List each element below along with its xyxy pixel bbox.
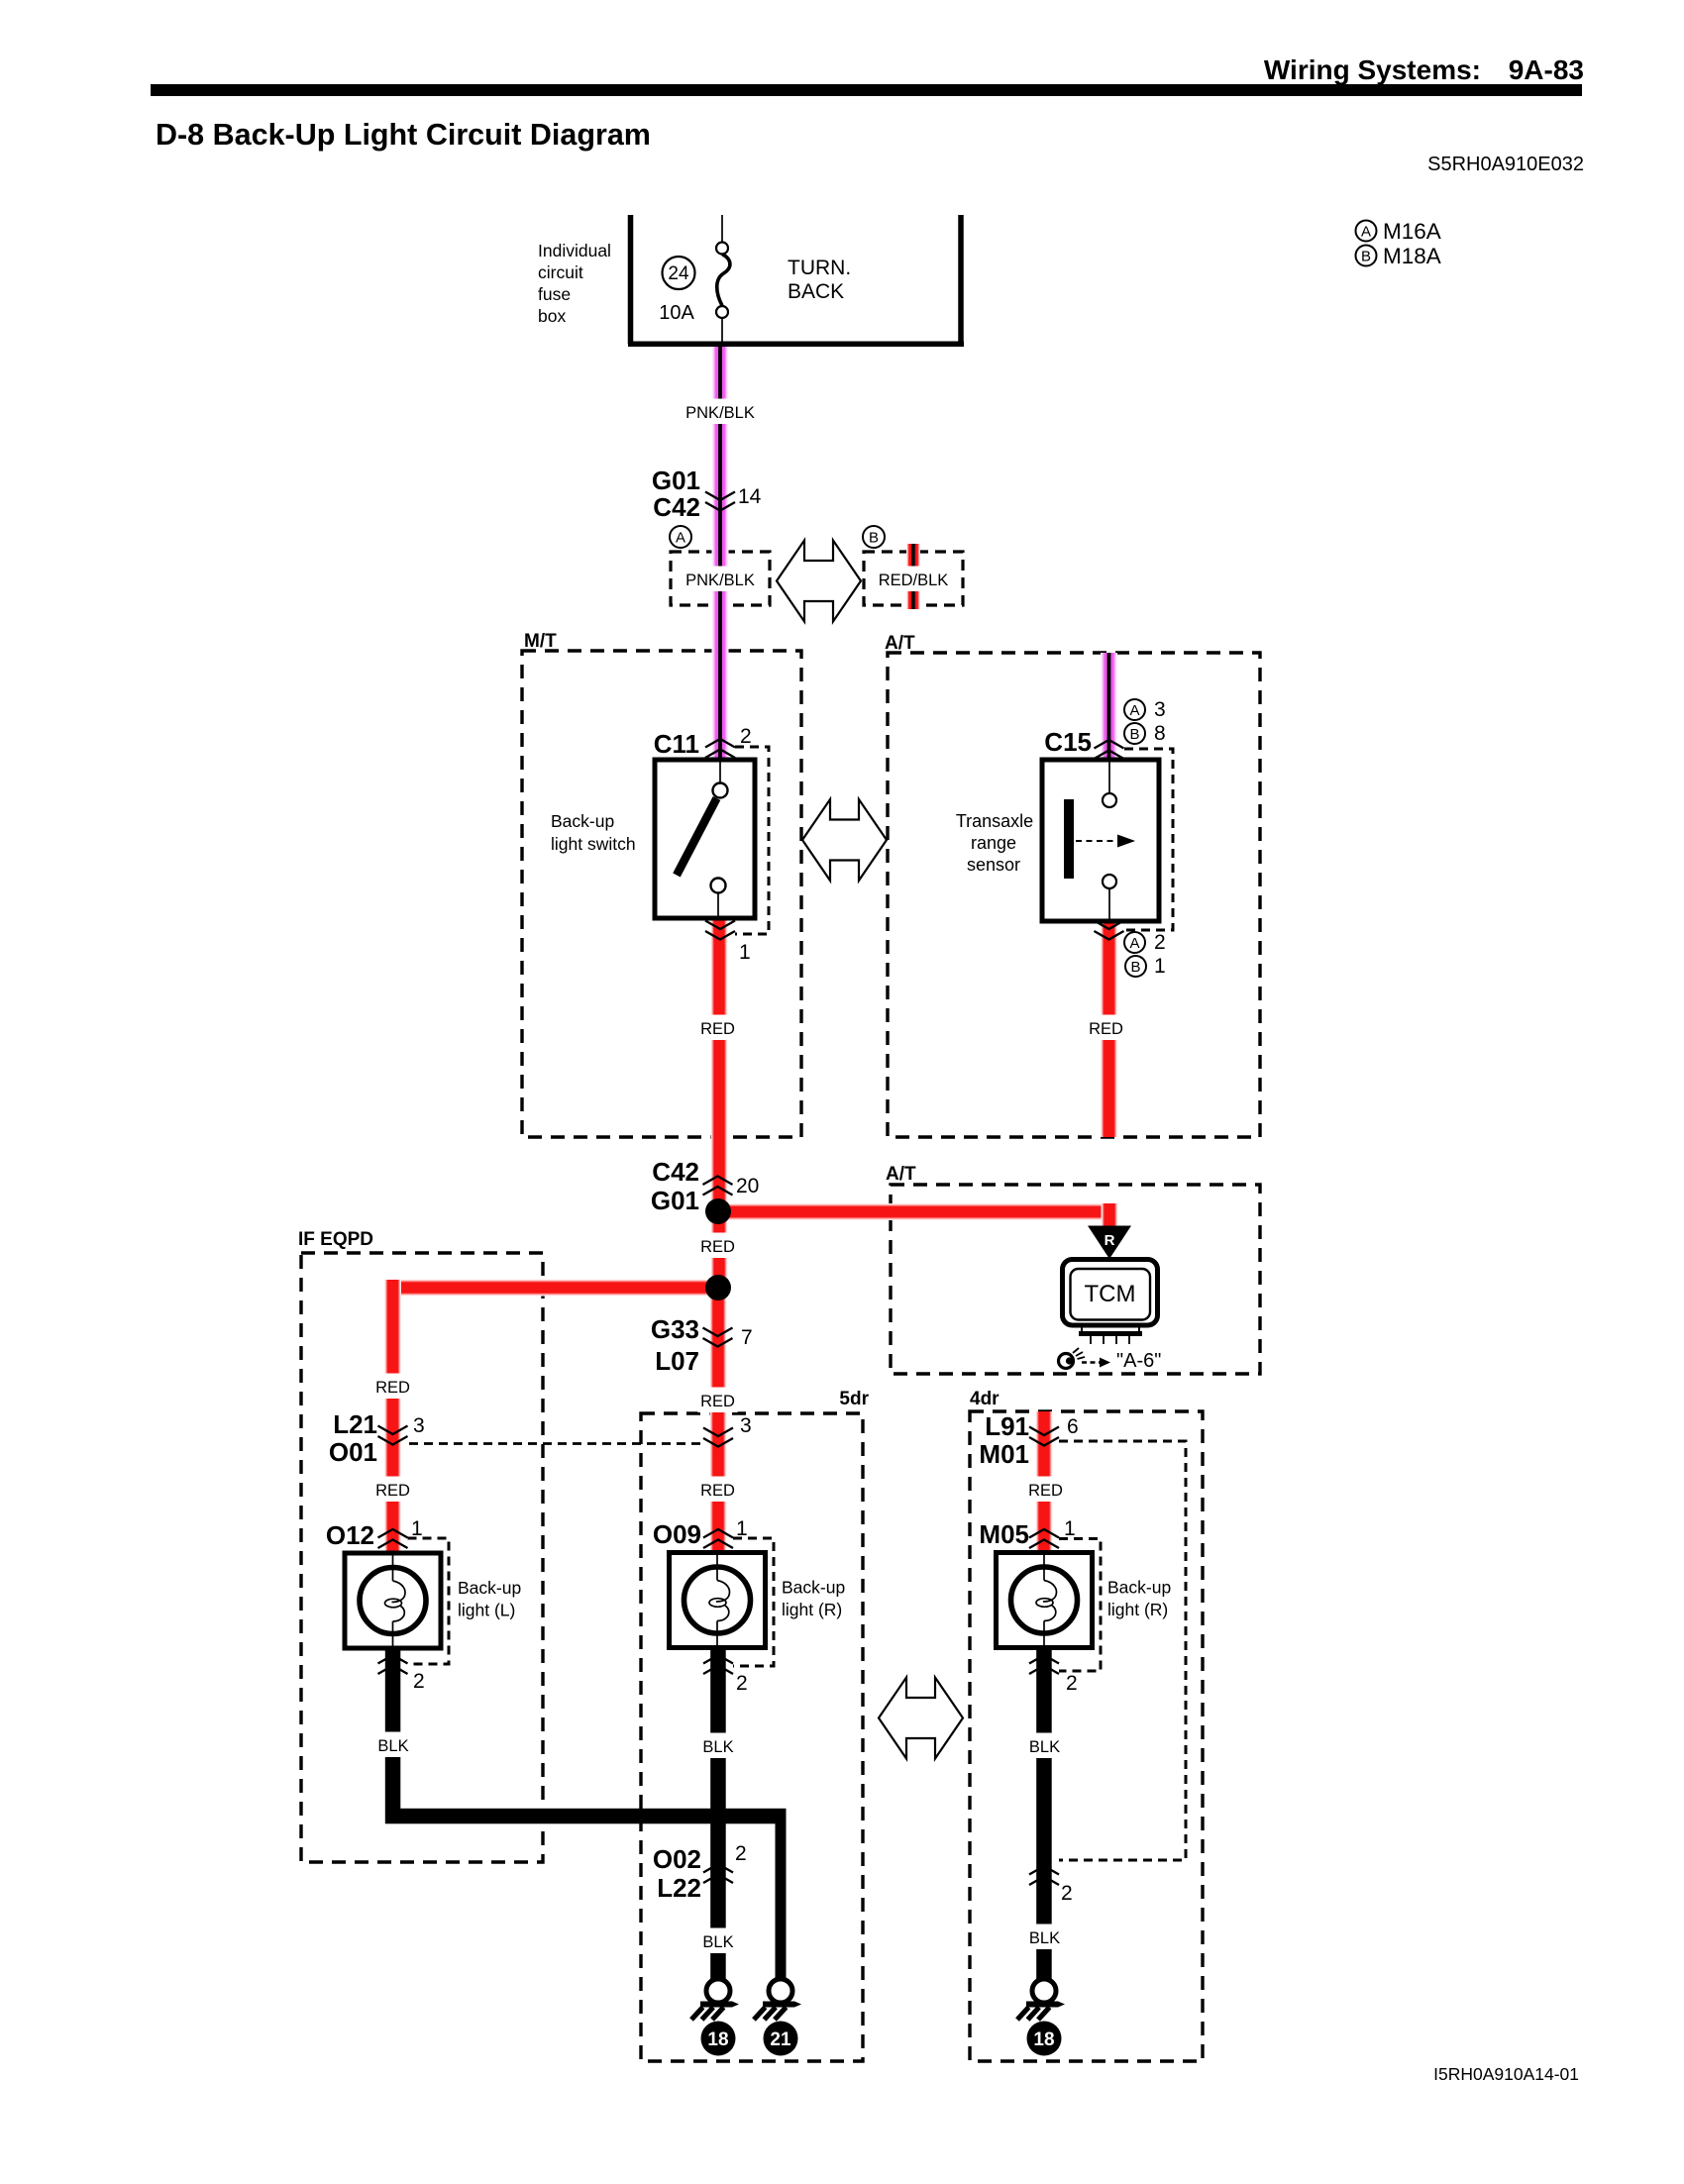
svg-text:2: 2 — [1066, 1672, 1078, 1695]
svg-text:7: 7 — [741, 1326, 753, 1349]
svg-text:B: B — [1129, 726, 1139, 743]
svg-text:1: 1 — [411, 1517, 423, 1540]
svg-text:R: R — [1105, 1232, 1115, 1249]
svg-text:fuse: fuse — [538, 284, 571, 304]
svg-text:BACK: BACK — [788, 280, 844, 303]
svg-text:RED: RED — [1028, 1482, 1063, 1500]
svg-text:8: 8 — [1154, 722, 1166, 745]
svg-text:I5RH0A910A14-01: I5RH0A910A14-01 — [1433, 2064, 1579, 2084]
svg-text:PNK/BLK: PNK/BLK — [685, 404, 755, 422]
svg-text:Individual: Individual — [538, 241, 611, 260]
svg-text:G01: G01 — [652, 466, 700, 495]
svg-text:D-8 Back-Up Light Circuit Diag: D-8 Back-Up Light Circuit Diagram — [156, 118, 651, 152]
svg-text:Back-up: Back-up — [782, 1578, 845, 1598]
svg-text:6: 6 — [1067, 1415, 1079, 1438]
svg-text:RED: RED — [1089, 1020, 1123, 1038]
svg-text:RED: RED — [700, 1482, 735, 1500]
svg-text:M05: M05 — [979, 1519, 1029, 1549]
svg-text:BLK: BLK — [1029, 1738, 1060, 1756]
svg-text:PNK/BLK: PNK/BLK — [685, 572, 755, 589]
svg-text:3: 3 — [413, 1414, 425, 1437]
svg-text:BLK: BLK — [702, 1738, 733, 1756]
svg-text:G33: G33 — [651, 1314, 699, 1344]
svg-text:2: 2 — [740, 725, 752, 748]
svg-text:2: 2 — [1154, 931, 1166, 954]
svg-text:BLK: BLK — [377, 1737, 408, 1755]
svg-text:M16A: M16A — [1383, 219, 1441, 244]
svg-text:range: range — [971, 833, 1016, 853]
svg-text:1: 1 — [1154, 955, 1166, 978]
svg-text:RED: RED — [375, 1482, 410, 1500]
svg-text:TCM: TCM — [1085, 1281, 1136, 1307]
svg-text:10A: 10A — [659, 302, 694, 324]
svg-text:2: 2 — [1061, 1882, 1073, 1905]
svg-text:TURN.: TURN. — [788, 257, 851, 279]
svg-text:3: 3 — [740, 1414, 752, 1437]
svg-text:L22: L22 — [657, 1873, 701, 1903]
svg-text:light (R): light (R) — [782, 1600, 842, 1619]
svg-text:Back-up: Back-up — [1107, 1578, 1171, 1598]
svg-text:A/T: A/T — [885, 633, 915, 654]
svg-text:L21: L21 — [333, 1409, 377, 1439]
svg-text:Back-up: Back-up — [551, 811, 614, 831]
svg-text:light (R): light (R) — [1107, 1600, 1168, 1619]
svg-text:light switch: light switch — [551, 834, 636, 854]
svg-text:C15: C15 — [1044, 727, 1092, 757]
svg-text:M01: M01 — [979, 1439, 1029, 1469]
svg-text:4dr: 4dr — [970, 1389, 1000, 1409]
svg-text:RED/BLK: RED/BLK — [879, 572, 949, 589]
svg-text:L07: L07 — [655, 1346, 699, 1376]
svg-text:18: 18 — [707, 2029, 728, 2050]
svg-text:20: 20 — [736, 1175, 759, 1197]
svg-text:O01: O01 — [329, 1437, 377, 1467]
svg-text:A: A — [1129, 935, 1139, 952]
svg-text:Transaxle: Transaxle — [956, 811, 1033, 831]
svg-text:2: 2 — [736, 1672, 748, 1695]
svg-text:2: 2 — [735, 1842, 747, 1865]
svg-text:"A-6": "A-6" — [1116, 1350, 1161, 1372]
svg-text:Wiring Systems:: Wiring Systems: — [1264, 54, 1481, 85]
svg-text:B: B — [1361, 248, 1371, 264]
svg-text:BLK: BLK — [1029, 1929, 1060, 1947]
svg-text:O09: O09 — [653, 1519, 701, 1549]
svg-text:B: B — [1130, 959, 1140, 976]
svg-text:5dr: 5dr — [839, 1389, 869, 1409]
svg-text:S5RH0A910E032: S5RH0A910E032 — [1427, 154, 1584, 175]
svg-text:O02: O02 — [653, 1844, 701, 1874]
svg-text:24: 24 — [668, 263, 689, 284]
svg-text:C42: C42 — [653, 492, 700, 522]
svg-text:14: 14 — [738, 485, 762, 508]
svg-text:C42: C42 — [652, 1157, 699, 1187]
svg-text:RED: RED — [700, 1020, 735, 1038]
svg-text:2: 2 — [413, 1670, 425, 1693]
svg-text:L91: L91 — [985, 1411, 1029, 1441]
svg-text:IF EQPD: IF EQPD — [298, 1229, 373, 1250]
svg-text:circuit: circuit — [538, 262, 583, 282]
svg-text:M18A: M18A — [1383, 244, 1441, 268]
svg-text:1: 1 — [739, 941, 751, 964]
svg-text:light (L): light (L) — [458, 1601, 515, 1620]
svg-text:18: 18 — [1033, 2029, 1054, 2050]
svg-text:RED: RED — [375, 1379, 410, 1397]
svg-text:G01: G01 — [651, 1186, 699, 1215]
svg-text:O12: O12 — [326, 1520, 374, 1550]
svg-text:BLK: BLK — [702, 1933, 733, 1951]
svg-text:A: A — [676, 529, 685, 546]
svg-text:sensor: sensor — [967, 855, 1020, 875]
svg-text:M/T: M/T — [524, 631, 557, 652]
svg-text:Back-up: Back-up — [458, 1578, 521, 1598]
svg-text:9A-83: 9A-83 — [1509, 54, 1584, 85]
svg-text:1: 1 — [736, 1517, 748, 1540]
svg-text:A/T: A/T — [886, 1164, 916, 1185]
svg-text:A: A — [1361, 223, 1371, 240]
svg-text:box: box — [538, 306, 566, 326]
svg-text:1: 1 — [1064, 1517, 1076, 1540]
svg-text:C11: C11 — [654, 729, 699, 759]
svg-text:RED: RED — [700, 1238, 735, 1256]
svg-text:3: 3 — [1154, 698, 1166, 721]
svg-text:A: A — [1129, 702, 1139, 719]
svg-text:RED: RED — [700, 1393, 735, 1410]
svg-text:21: 21 — [770, 2029, 791, 2050]
svg-text:B: B — [869, 529, 879, 546]
